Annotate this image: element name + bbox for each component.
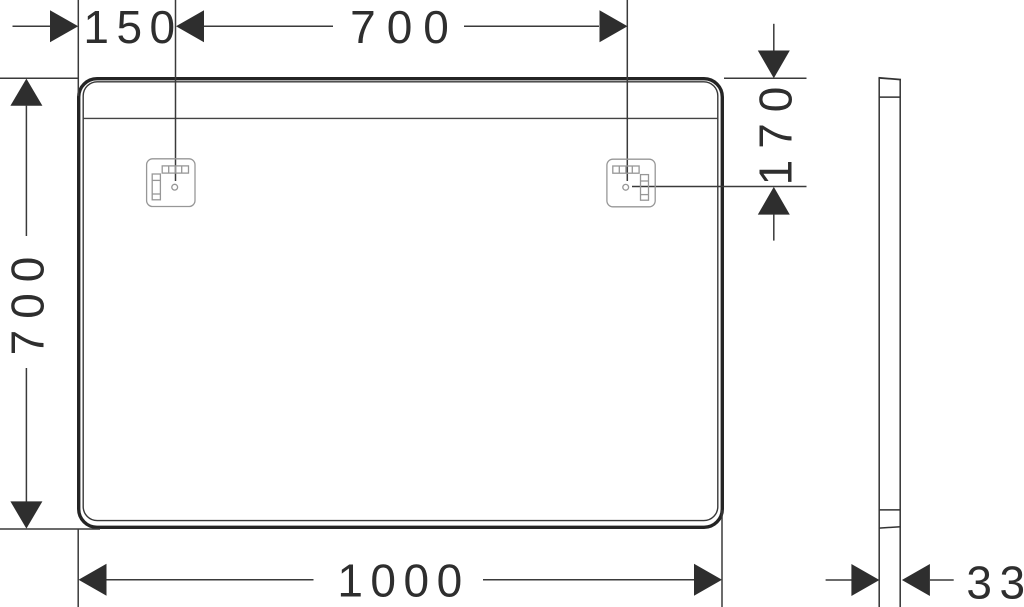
extension line bracket2 level: [632, 186, 807, 188]
33 dim line left: [826, 579, 852, 581]
top dim arrow right at mount2: [600, 10, 628, 42]
left dim arrow up: [10, 79, 42, 106]
svg-text:1000: 1000: [337, 555, 469, 607]
svg-text:170: 170: [750, 76, 802, 186]
side view bottom box top: [879, 509, 901, 511]
side view right edge: [899, 79, 901, 607]
extension line bottom left corner: [77, 529, 79, 607]
extension line mirror bottom left: [0, 528, 100, 530]
top dim leader line: [13, 25, 52, 27]
extension line bracket1: [175, 0, 177, 181]
right dim leader above: [773, 24, 775, 51]
svg-text:700: 700: [350, 1, 460, 53]
side view top divider: [879, 96, 901, 98]
bottom dim arrow left: [79, 564, 107, 596]
right dim arrow down: [758, 51, 790, 79]
right dim arrow up: [758, 187, 790, 215]
33 dim arrow left: [902, 564, 930, 596]
top dim line 700 left: [204, 25, 333, 27]
mirror inner glass line: [83, 82, 718, 521]
side view top slant: [879, 78, 902, 80]
top dim arrow right at 150 start: [50, 10, 78, 42]
svg-text:150: 150: [83, 1, 182, 53]
extension line bracket2: [626, 0, 628, 181]
mirror outer outline: [79, 79, 723, 528]
top dim line 700 right: [464, 25, 599, 27]
bottom dim line right: [483, 579, 695, 581]
side view bottom box bottom: [879, 527, 901, 528]
bottom dim line left: [107, 579, 314, 581]
right dim leader below: [773, 214, 775, 241]
extension line mirror top right: [724, 77, 807, 79]
extension line bottom right corner: [721, 510, 723, 607]
mirror top band line: [84, 117, 718, 119]
side view left edge: [878, 78, 880, 607]
extension line mirror top left: [0, 77, 79, 79]
top dim arrow left of 700: [176, 10, 204, 42]
svg-text:33: 33: [966, 557, 1024, 607]
svg-text:700: 700: [2, 246, 54, 356]
left dim line upper: [25, 105, 27, 236]
bottom dim arrow right: [694, 564, 722, 596]
bracket icon right: [607, 159, 655, 207]
extension line left edge top: [77, 0, 79, 96]
bracket icon left: [147, 159, 195, 207]
left dim arrow down: [10, 501, 42, 528]
left dim line lower: [25, 368, 27, 502]
33 dim line right: [930, 579, 954, 581]
33 dim arrow right: [851, 564, 879, 596]
